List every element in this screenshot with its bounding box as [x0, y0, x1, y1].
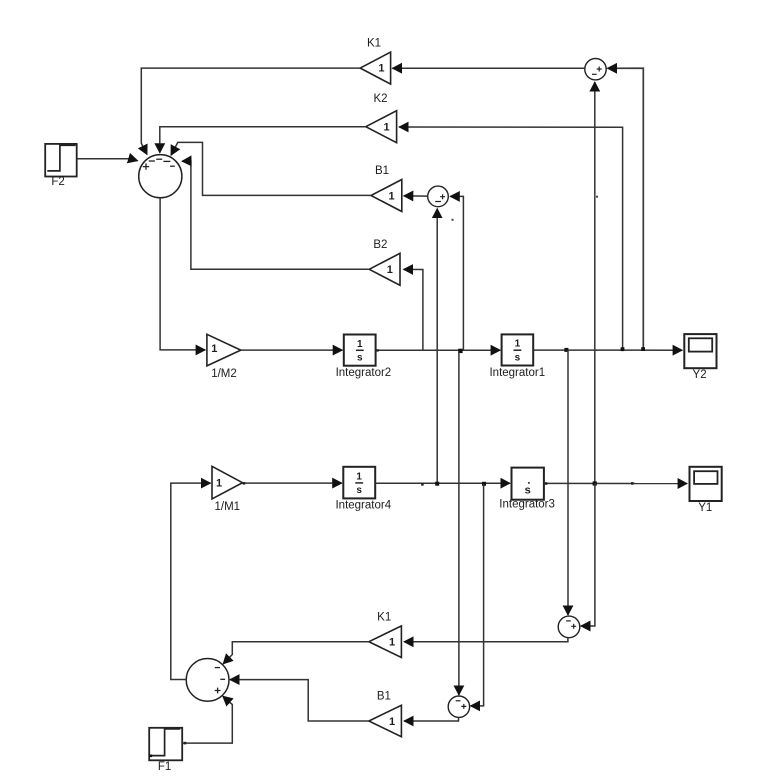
- wire gain B1 lower output to sum S6: [230, 680, 369, 721]
- svg-text:1: 1: [356, 471, 362, 482]
- node stub after Integrator2: [376, 349, 378, 351]
- svg-text:1: 1: [389, 637, 395, 649]
- junction x2 to S1: [641, 347, 645, 351]
- wire sum S6 output to gain 1/M1: [171, 483, 211, 679]
- wire x2 branch down to sum S4 top input: [567, 350, 569, 615]
- svg-text:K1: K1: [377, 611, 391, 623]
- svg-text:1/M1: 1/M1: [215, 501, 241, 513]
- svg-text:Integrator3: Integrator3: [499, 499, 555, 511]
- source F2: [45, 144, 76, 188]
- stray node dot A: [452, 219, 454, 221]
- gain K1 (upper): [360, 37, 390, 84]
- sum S6 (mass 1 force summing junction): [186, 659, 229, 702]
- wire gain K1 lower output to sum S6: [223, 642, 369, 664]
- wire v2 tap to gain B2 input: [404, 269, 423, 349]
- gain K2: [366, 93, 397, 143]
- svg-text:K1: K1: [367, 37, 381, 49]
- svg-text:s: s: [357, 352, 363, 363]
- svg-text:s: s: [515, 352, 521, 363]
- wire sum S1 to gain K1 input: [392, 67, 584, 69]
- junction v2 branch: [458, 349, 462, 353]
- integrator Integrator2: [336, 335, 392, 379]
- wire sum S5 output to gain B1 lower: [404, 717, 459, 721]
- wire x2 branch to gain K2 input: [399, 127, 622, 348]
- wire Integrator2 to Integrator1 (v2 net): [376, 349, 501, 351]
- gain B1 (upper): [371, 165, 402, 211]
- node stub after F1: [184, 742, 187, 745]
- junction x2 to K2: [621, 347, 625, 351]
- wire Integrator3 to scope Y1 (x1 net): [544, 482, 687, 484]
- junction v1 to S1: [593, 481, 597, 485]
- svg-text:B2: B2: [373, 239, 387, 251]
- svg-text:F1: F1: [158, 761, 171, 773]
- svg-text:Integrator1: Integrator1: [489, 367, 545, 379]
- wire sum S2 output to gain 1/M2: [160, 198, 205, 350]
- svg-text:1/M2: 1/M2: [211, 368, 237, 380]
- junction v1 to S5: [482, 482, 486, 486]
- scope Y1: [690, 467, 722, 514]
- node dot on v1 wire: [421, 483, 424, 486]
- node stub after Integrator3: [545, 482, 548, 485]
- wire Integrator1 to scope Y2 (x2 net): [533, 349, 682, 351]
- integrator Integrator4: [335, 467, 391, 512]
- gain 1/M2: [207, 334, 241, 380]
- wire v1 branch down to sum S5 right input: [471, 484, 484, 706]
- svg-text:1: 1: [387, 264, 393, 276]
- integrator Integrator3: [499, 468, 555, 511]
- wire Integrator4 to Integrator3 (v1 net): [375, 482, 510, 484]
- wire gain 1/M2 to Integrator2: [241, 349, 342, 351]
- svg-text:B1: B1: [377, 690, 391, 702]
- wire v2 branch down to sum S5 top input: [458, 352, 460, 695]
- wire B1 output to sum S2: [171, 142, 371, 195]
- junction x2 to S4: [564, 348, 568, 352]
- svg-text:1: 1: [211, 343, 217, 355]
- svg-text:F2: F2: [51, 176, 64, 188]
- svg-text:Integrator2: Integrator2: [336, 367, 392, 379]
- svg-text:Integrator4: Integrator4: [335, 500, 391, 512]
- sum S1 (x2-x1 for K1): [585, 58, 606, 79]
- svg-text:1: 1: [357, 339, 363, 350]
- wire F2 to sum S2: [77, 159, 138, 161]
- junction v1 to S3: [435, 482, 439, 486]
- svg-text:B1: B1: [375, 165, 389, 177]
- svg-text:1: 1: [389, 716, 395, 728]
- svg-text:1: 1: [378, 63, 384, 75]
- node stub after 1/M1: [243, 482, 246, 485]
- svg-text:1: 1: [389, 190, 395, 202]
- gain B2: [369, 239, 400, 285]
- gain B1 (lower): [369, 690, 402, 736]
- svg-text:Y1: Y1: [698, 502, 712, 514]
- wire F1 to sum S6: [182, 696, 232, 743]
- svg-text:1: 1: [216, 477, 222, 489]
- wire v2 branch up to sum S3 right input: [450, 196, 463, 349]
- svg-text:K2: K2: [373, 93, 387, 105]
- gain K1 (lower): [369, 611, 402, 657]
- svg-text:s: s: [356, 485, 362, 496]
- source F1: [149, 728, 182, 773]
- wire x1 up to sum S1 bottom input: [594, 82, 596, 483]
- svg-text:Y2: Y2: [693, 369, 707, 381]
- wire 1/M1 to Integrator4: [243, 482, 342, 484]
- sum S2 (mass 2 force summing junction): [139, 155, 182, 198]
- sum S3 (v2-v1 for B1): [428, 186, 449, 207]
- wire K1 output to sum S2: [141, 68, 360, 154]
- scope Y2: [684, 334, 716, 381]
- wire sum S3 to gain B1 input: [404, 195, 428, 197]
- svg-text:s: s: [525, 485, 531, 497]
- wire x1 down to sum S4 right input: [581, 484, 595, 627]
- sum S4 (x1-x2 lower): [558, 616, 580, 638]
- node dot on x1 wire: [631, 482, 634, 485]
- wire x2 branch to sum S1 right input: [607, 68, 643, 348]
- wire B2 output to sum S2: [182, 161, 369, 269]
- gain 1/M1: [212, 466, 243, 513]
- svg-text:1: 1: [383, 122, 389, 134]
- svg-text:1: 1: [515, 339, 521, 350]
- stray node dot B: [596, 196, 598, 198]
- wire sum S4 output to gain K1 lower: [404, 638, 568, 642]
- wire K2 output to sum S2: [160, 127, 366, 153]
- wire v1 branch up to sum S3 bottom input: [436, 209, 438, 484]
- integrator Integrator1: [489, 334, 545, 379]
- sum S5 (v1-v2 lower): [448, 696, 469, 717]
